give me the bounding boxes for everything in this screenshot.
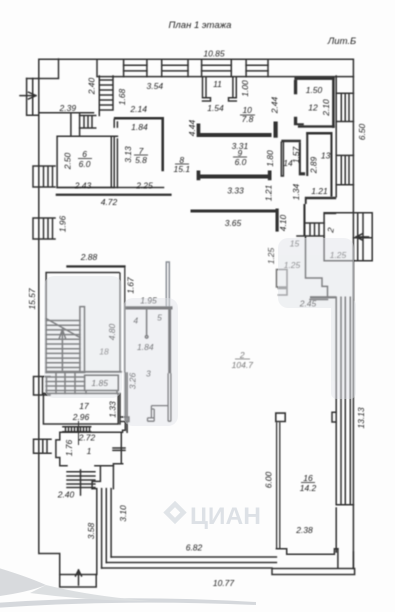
svg-text:1.50: 1.50 — [306, 85, 323, 95]
wall 2.88 above stair block — [66, 265, 125, 267]
room 14 top wall — [281, 140, 301, 143]
top-left notch — [27, 59, 59, 79]
rooms 4/5 divider — [145, 310, 148, 339]
room 16 left wall cap — [275, 412, 286, 422]
svg-text:3.54: 3.54 — [147, 81, 164, 91]
svg-text:3.33: 3.33 — [227, 185, 244, 195]
wall below vestibule going down — [306, 236, 328, 300]
svg-text:14.2: 14.2 — [300, 483, 317, 493]
room 9 top wall — [197, 124, 272, 138]
sill between 17 and 1 — [63, 427, 91, 432]
corridor bundle horizontal — [102, 557, 277, 568]
room 3 double wall vertical — [168, 373, 171, 421]
right wall inner edge — [336, 76, 353, 552]
steps below room 1 — [67, 470, 95, 495]
room 16 left wall — [277, 422, 280, 548]
stair diagonal + arrow — [46, 319, 80, 371]
corridor bundle vertical — [92, 489, 111, 575]
bottom porch — [60, 570, 96, 587]
dim line 2.96/2.72 — [78, 422, 80, 445]
right colonnade lines — [341, 297, 350, 505]
room 16 bottom — [276, 549, 338, 555]
svg-text:12: 12 — [308, 103, 318, 113]
room 13 right wall — [330, 135, 332, 197]
room 12 top wall — [294, 77, 334, 80]
thick walls — [46, 77, 336, 549]
svg-text:1: 1 — [87, 446, 92, 456]
svg-text:1.76: 1.76 — [64, 439, 74, 456]
right wall windows — [336, 93, 353, 121]
wall 2.45 thick — [310, 296, 336, 298]
room 13 top wall — [306, 132, 332, 135]
left wall windows — [33, 166, 55, 187]
room 7 top wall thick — [114, 117, 164, 171]
wall 3.65 — [191, 210, 276, 213]
svg-text:2.72: 2.72 — [78, 433, 96, 443]
svg-text:3.13: 3.13 — [123, 146, 133, 163]
stair treads — [46, 321, 80, 372]
bottom right thick wall — [272, 549, 355, 575]
left porch — [27, 79, 39, 116]
svg-text:1.68: 1.68 — [117, 88, 127, 105]
svg-text:2.40: 2.40 — [87, 77, 97, 95]
right porch — [324, 213, 372, 261]
svg-text:1.84: 1.84 — [131, 122, 148, 132]
svg-text:10.77: 10.77 — [213, 578, 235, 588]
room 11 door jambs — [203, 77, 237, 101]
svg-text:2.25: 2.25 — [135, 181, 153, 191]
svg-text:2: 2 — [239, 350, 245, 360]
svg-text:2.43: 2.43 — [74, 181, 92, 191]
door steps 1.85 box — [85, 375, 119, 393]
svg-text:10.85: 10.85 — [203, 49, 225, 59]
room 9 right pier — [274, 122, 278, 138]
svg-text:2.88: 2.88 — [80, 252, 98, 262]
svg-text:6.00: 6.00 — [264, 471, 274, 488]
vestibule 15 left wall — [303, 204, 305, 236]
room 12 bottom wall — [298, 125, 335, 127]
svg-text:1.25: 1.25 — [266, 247, 276, 264]
right porch arrow — [356, 234, 369, 240]
outer walls — [39, 59, 354, 574]
svg-text:15.1: 15.1 — [174, 164, 191, 174]
rooms 4/5 block right wall — [168, 307, 171, 373]
svg-text:2.14: 2.14 — [129, 104, 147, 114]
svg-text:1.21: 1.21 — [264, 184, 274, 201]
svg-text:104.7: 104.7 — [232, 360, 254, 370]
stairs bottom of stair block — [46, 373, 85, 394]
room 13 left wall — [306, 132, 308, 176]
rooms 4/5 block top — [126, 306, 173, 309]
bottom ЦИАН watermark — [167, 504, 184, 521]
svg-text:16: 16 — [303, 473, 313, 483]
vestibule 15 top wall — [324, 213, 336, 215]
stair inner double wall — [80, 307, 85, 372]
svg-text:2.50: 2.50 — [63, 152, 73, 170]
svg-text:3.10: 3.10 — [118, 505, 128, 522]
room 6 — [57, 136, 114, 187]
svg-text:13: 13 — [321, 151, 331, 161]
wall under 2.39 — [39, 113, 94, 137]
svg-text:11: 11 — [213, 79, 222, 89]
room 9 bottom wall — [197, 171, 272, 181]
room 3 hook wall — [148, 406, 169, 422]
stair block right wall thick — [120, 268, 125, 373]
svg-text:1.57: 1.57 — [291, 146, 301, 163]
wall 4.72 thick — [56, 194, 172, 196]
svg-text:17: 17 — [79, 401, 89, 411]
room 3 left wall — [123, 373, 128, 432]
svg-text:1.33: 1.33 — [108, 401, 118, 418]
svg-text:15.57: 15.57 — [27, 288, 37, 310]
stair top-left (2.40/1.68) — [99, 76, 113, 116]
wall 3.65 right flange — [276, 209, 279, 232]
room number underlines — [78, 115, 315, 483]
column near vestibule — [277, 270, 288, 296]
svg-text:2.40: 2.40 — [57, 490, 75, 500]
svg-text:2.38: 2.38 — [295, 525, 313, 535]
svg-text:6.0: 6.0 — [79, 159, 91, 169]
room 12 right wall — [332, 77, 335, 128]
room 12 left wall — [294, 80, 297, 94]
room 17 — [43, 393, 128, 424]
room 14 right wall — [299, 142, 305, 175]
wall 4.72 under rooms 6/7 — [57, 187, 163, 189]
svg-text:3.65: 3.65 — [225, 218, 242, 228]
wall 1.95 right faint — [166, 262, 169, 306]
lightening watermark overlays — [44, 238, 356, 426]
svg-text:6: 6 — [82, 149, 87, 159]
svg-text:2.89: 2.89 — [309, 156, 319, 174]
bottom-left gray swoosh — [0, 566, 256, 608]
vestibule steps ladder — [297, 223, 324, 236]
stair block bottom thick — [46, 371, 122, 373]
svg-text:ЦИАН: ЦИАН — [190, 503, 261, 530]
svg-text:6.0: 6.0 — [235, 157, 247, 167]
room 1 tambour — [56, 432, 125, 466]
svg-text:3.58: 3.58 — [86, 522, 96, 539]
right wall pilaster — [332, 412, 336, 422]
porch arrow — [20, 92, 36, 99]
svg-text:4.10: 4.10 — [278, 214, 288, 231]
svg-text:1.21: 1.21 — [311, 186, 328, 196]
wall y196.8 — [305, 197, 336, 204]
svg-text:4.72: 4.72 — [101, 197, 118, 207]
room 14 left wall — [281, 142, 283, 176]
svg-text:6.82: 6.82 — [186, 543, 203, 553]
svg-text:7.8: 7.8 — [242, 114, 254, 124]
stair block outline — [46, 273, 119, 373]
svg-text:2.39: 2.39 — [59, 103, 77, 113]
svg-text:1.54: 1.54 — [207, 103, 224, 113]
svg-text:13.13: 13.13 — [356, 407, 366, 429]
svg-text:6.50: 6.50 — [357, 123, 367, 140]
svg-text:1.67: 1.67 — [126, 277, 136, 294]
room 7 — [114, 120, 117, 188]
svg-text:5.8: 5.8 — [135, 155, 147, 165]
small ladder under wall — [80, 116, 96, 129]
svg-text:1.34: 1.34 — [291, 183, 301, 200]
top window band — [97, 59, 353, 76]
svg-text:1.00: 1.00 — [240, 80, 250, 97]
svg-text:1.96: 1.96 — [58, 215, 68, 232]
svg-text:4.44: 4.44 — [187, 119, 197, 136]
svg-text:1.80: 1.80 — [265, 150, 275, 167]
tambour bottom-right step — [92, 464, 123, 489]
svg-text:2.96: 2.96 — [72, 412, 90, 422]
svg-text:2.10: 2.10 — [321, 99, 331, 117]
svg-text:План 1 этажа: План 1 этажа — [169, 20, 232, 31]
svg-text:2.44: 2.44 — [270, 96, 280, 114]
svg-text:Лит.Б: Лит.Б — [327, 36, 356, 47]
